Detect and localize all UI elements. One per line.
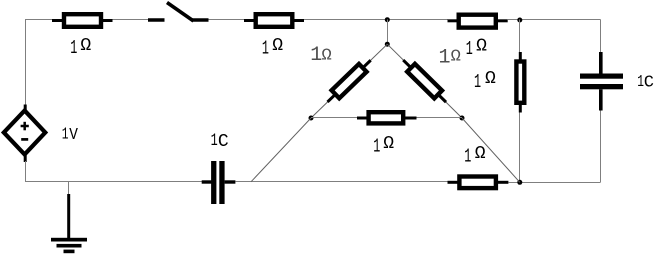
label R4 value 1Ω [464, 144, 486, 168]
svg-text:1: 1 [211, 130, 218, 151]
label Rv value 1Ω [474, 69, 496, 93]
wire: top rail R3 to right corner [508, 19, 601, 21]
label R6 value 1 Ω (serif) [439, 47, 461, 70]
resistor Rv 1ohm (vertical, right) [516, 52, 524, 113]
svg-text:1: 1 [62, 126, 69, 145]
wire: bottom rail cap C1 to R4 [235, 181, 448, 183]
svg-text:Ω: Ω [451, 47, 461, 66]
wire: source bottom to bottom rail [25, 161, 27, 182]
node: junction top rail / vertical resistor branch [517, 18, 522, 23]
resistor R6 1ohm (delta right diagonal, tilted) [399, 56, 450, 106]
wire: right vertex to bottom-right node diagonal [462, 118, 520, 182]
wire: top rail R2 to R3 (through node) [304, 19, 448, 21]
svg-text:Ω: Ω [475, 144, 486, 164]
label R1 value 1Ω [70, 36, 91, 59]
svg-text:1: 1 [464, 146, 471, 168]
svg-text:Ω: Ω [322, 47, 332, 66]
svg-text:Ω: Ω [272, 36, 283, 56]
label R5 value 1 Ω (serif) [310, 44, 332, 67]
wire: bottom rail left segment [25, 181, 203, 183]
switch S1 (open) left contact [148, 18, 165, 21]
svg-text:1: 1 [310, 44, 322, 67]
switch S1 right contact [192, 18, 209, 21]
voltage source V1 stub bottom [24, 154, 27, 163]
node: junction top rail / delta feed [385, 17, 390, 22]
svg-text:1: 1 [70, 37, 77, 59]
svg-text:Ω: Ω [383, 134, 394, 154]
node: delta right vertex [460, 116, 465, 121]
capacitor C1 1C (bottom) [202, 161, 236, 204]
svg-text:Ω: Ω [485, 69, 496, 89]
label C1 value 1C [211, 130, 229, 152]
node: bottom-right junction [517, 180, 522, 185]
svg-text:1: 1 [262, 38, 269, 60]
voltage source V1 1V (diamond) [4, 111, 46, 155]
resistor R4 1ohm (bottom) [448, 177, 509, 189]
resistor R5 1ohm (delta left diagonal, tilted) [324, 56, 375, 106]
wire: left vertex to bottom rail diagonal [251, 118, 311, 182]
label R2 value 1Ω [262, 36, 283, 59]
wire: delta left diagonal (apex to left vertex) [311, 44, 387, 118]
svg-text:V: V [69, 125, 78, 144]
svg-text:C: C [644, 74, 654, 93]
wire: right rail vertical top (corner to cap C2) [600, 20, 602, 54]
label C2 value 1C [637, 73, 654, 92]
ground symbol [51, 194, 87, 253]
wire: right rail vertical bottom (cap C2 to bottom corner) [600, 111, 602, 183]
wire: left rail vertical (top corner to source top) [25, 20, 27, 107]
resistor R2 1ohm (top middle) [244, 14, 304, 27]
wire: top rail segment before R1 [25, 19, 53, 21]
wire: delta bottom side (left vertex to right vertex) [311, 117, 462, 119]
svg-text:Ω: Ω [80, 36, 91, 56]
wire: vertical branch from top node to Rv [519, 20, 521, 56]
label V1 value 1V [62, 125, 79, 145]
resistor R1 1ohm (top-left) [52, 14, 113, 27]
svg-text:Ω: Ω [476, 37, 487, 57]
svg-text:1: 1 [373, 136, 380, 158]
wire: delta right diagonal (apex to right vertex) [387, 44, 462, 118]
svg-text:1: 1 [474, 71, 481, 93]
ground stem thin [68, 182, 70, 197]
svg-text:C: C [218, 132, 229, 152]
switch S1 blade [167, 3, 194, 22]
wire: Rv bottom to bottom-right node [519, 113, 521, 183]
label R7 value 1Ω [373, 134, 394, 158]
svg-text:1: 1 [439, 47, 451, 70]
wire: top rail switch to R2 [209, 19, 246, 21]
node: delta apex [385, 42, 390, 47]
svg-text:1: 1 [466, 38, 473, 60]
voltage source V1 stub top [24, 105, 27, 113]
wire: bottom rail R4 to right corner [508, 182, 600, 184]
node: delta left vertex [309, 116, 314, 121]
resistor R7 1ohm (delta bottom, horizontal) [357, 112, 417, 123]
label R3 value 1Ω [466, 37, 487, 60]
wire: delta feed vertical (top node to delta apex) [387, 20, 389, 45]
resistor R3 1ohm (top right) [448, 15, 508, 28]
capacitor C2 1C (right) [580, 52, 623, 111]
wire: top rail R1 to switch [113, 19, 149, 21]
